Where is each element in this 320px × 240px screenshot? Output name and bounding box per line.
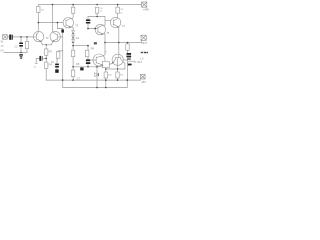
svg-text:C7: C7 [77,76,81,80]
svg-text:R3: R3 [49,50,53,54]
svg-text:C4: C4 [51,60,55,64]
svg-text:LS: LS [140,56,143,60]
svg-text:R8: R8 [91,47,95,51]
svg-text:-45V: -45V [141,82,146,84]
svg-text:1V: 1V [1,44,4,48]
svg-text:1k: 1k [100,10,102,12]
svg-text:0V: 0V [1,48,4,52]
svg-text:IN: IN [1,40,4,44]
svg-text:D1: D1 [76,36,80,40]
svg-text:OUT: OUT [142,41,148,45]
svg-text:1k: 1k [120,12,122,14]
svg-text:R9: R9 [76,62,80,66]
svg-text:C2: C2 [15,44,19,48]
svg-text:+45V: +45V [143,7,149,11]
